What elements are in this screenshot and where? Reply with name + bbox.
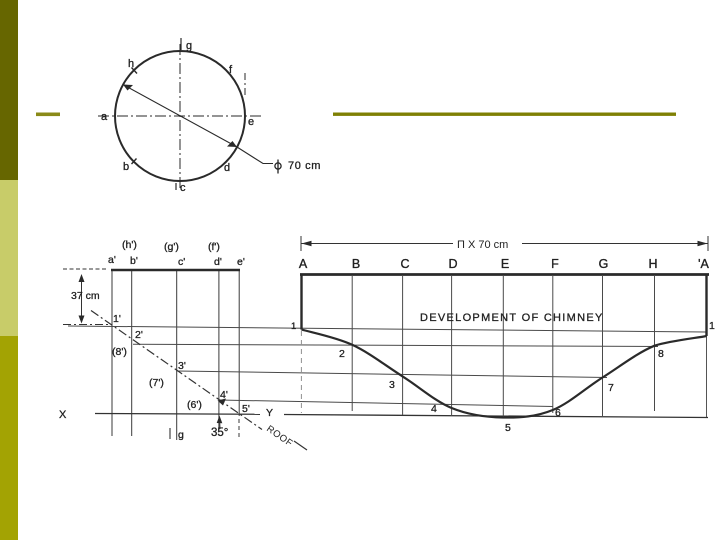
svg-text:Π X 70 cm: Π X 70 cm [457,239,508,251]
svg-text:(f'): (f') [208,241,220,253]
svg-text:2': 2' [135,329,143,341]
svg-text:d: d [224,162,230,174]
svg-text:A: A [299,257,308,271]
svg-text:8: 8 [658,348,664,360]
svg-text:h: h [128,58,134,70]
svg-text:b': b' [130,255,138,267]
svg-text:c: c [180,182,186,194]
svg-text:5: 5 [505,422,511,434]
svg-text:H: H [648,257,657,271]
svg-text:b: b [123,161,129,173]
svg-text:4: 4 [431,403,437,415]
svg-text:1': 1' [113,313,121,325]
svg-text:(g'): (g') [164,241,179,253]
svg-text:1: 1 [709,320,715,332]
svg-text:4': 4' [220,389,228,401]
svg-text:f: f [229,64,233,76]
svg-text:E: E [501,257,509,271]
svg-text:(h'): (h') [122,239,137,251]
svg-text:1: 1 [291,321,296,332]
svg-text:(8'): (8') [112,346,127,358]
svg-text:B: B [352,257,360,271]
svg-text:35°: 35° [211,427,228,439]
svg-text:ROOF: ROOF [264,423,294,449]
svg-text:37 cm: 37 cm [71,290,100,302]
svg-text:c': c' [178,256,185,268]
svg-text:e: e [248,116,254,128]
svg-text:6: 6 [555,407,561,419]
svg-text:e': e' [237,256,245,268]
svg-text:D: D [448,257,457,271]
svg-text:(6'): (6') [187,399,202,411]
svg-text:(7'): (7') [149,377,164,389]
svg-text:3: 3 [389,379,395,391]
svg-text:a': a' [108,254,116,266]
svg-text:g: g [178,429,184,441]
svg-text:d': d' [214,256,222,268]
svg-text:Y: Y [266,407,273,419]
svg-text:3': 3' [178,360,186,372]
svg-text:a: a [101,111,108,123]
svg-text:DEVELOPMENT OF CHIMNEY: DEVELOPMENT OF CHIMNEY [420,312,604,324]
svg-text:C: C [400,257,409,271]
svg-text:'A: 'A [698,257,709,271]
svg-text:5': 5' [242,403,250,415]
svg-text:70 cm: 70 cm [288,160,321,172]
svg-text:X: X [59,409,67,421]
svg-text:2: 2 [339,348,345,360]
svg-text:F: F [551,257,559,271]
svg-text:G: G [599,257,609,271]
svg-text:g: g [186,40,192,52]
svg-text:7: 7 [608,382,614,394]
